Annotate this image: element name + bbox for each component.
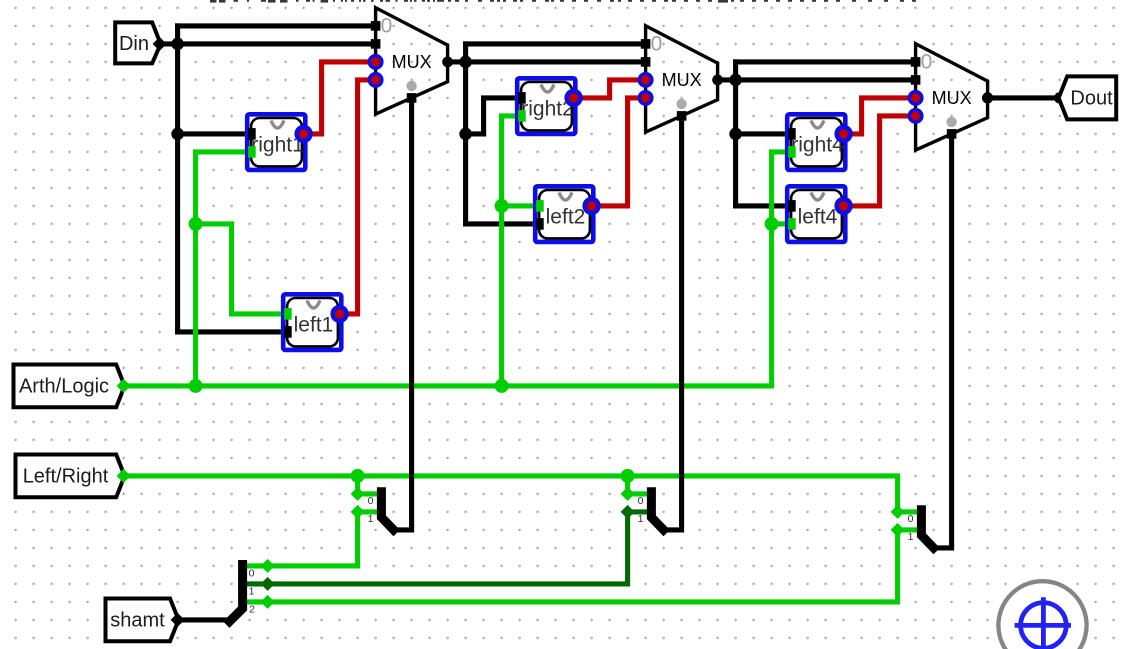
wire shamt to splitter xyxy=(178,617,232,622)
node Arth left1 junction xyxy=(189,217,203,231)
splitter S1 for MUX1 select xyxy=(358,491,382,496)
svg-text:left2: left2 xyxy=(546,206,586,229)
subcircuit left4 xyxy=(785,184,848,244)
wire stage3 top bus to MUX3 in0 xyxy=(736,59,916,64)
wire stage3 vertical bus xyxy=(733,62,738,206)
splitter S2 end1 marker xyxy=(621,505,635,519)
input pin shamt xyxy=(106,599,179,642)
wire shamt bit0 to splitter1 end1 xyxy=(244,512,358,566)
svg-text:left4: left4 xyxy=(798,206,838,229)
wire MUX3 select vertical xyxy=(934,134,952,548)
wire stage2 bus jog to right2 in xyxy=(466,98,523,134)
subcircuit right2 xyxy=(515,76,578,136)
wire Left/Right to splitter1 end0 xyxy=(355,476,360,494)
svg-text:2: 2 xyxy=(249,603,255,615)
subcircuit left2 xyxy=(533,184,596,244)
splitter shamt end2 marker xyxy=(261,595,275,609)
node C junction xyxy=(729,74,742,87)
wire Arth branch to left1 in1 xyxy=(196,224,290,314)
svg-text:shamt: shamt xyxy=(110,610,165,632)
svg-text:0: 0 xyxy=(638,495,644,507)
wire stage1 bus to left1 in xyxy=(178,329,290,334)
wire stage2 vertical bus xyxy=(463,44,468,224)
wire right1 out to MUX1 in2 (red) xyxy=(304,62,376,134)
splitter S3 for MUX3 select xyxy=(898,509,922,514)
svg-text:left1: left1 xyxy=(294,314,334,337)
op-mux U3 (MUX stage 3) xyxy=(916,44,988,150)
svg-text:1: 1 xyxy=(249,585,255,597)
output pin Dout xyxy=(1059,76,1117,119)
node B junction xyxy=(459,56,472,69)
wire Arth to right1 in2 xyxy=(196,152,254,386)
input pin Left/Right xyxy=(16,455,125,498)
wire Arth branch to left2 in1 xyxy=(502,203,541,208)
wire left2 out to MUX2 in3 (red) xyxy=(592,98,646,206)
splitter shamt end1 marker xyxy=(261,577,275,591)
wire stage1 bus to MUX1 in1 xyxy=(178,41,376,46)
svg-text:1: 1 xyxy=(638,513,644,525)
svg-text:Din: Din xyxy=(119,33,149,55)
splitter S1 end0 marker xyxy=(351,487,365,501)
subcircuit left1 xyxy=(281,292,344,352)
wire MUX1 select vertical xyxy=(394,98,412,530)
op-mux U2 (MUX stage 2) xyxy=(646,26,718,132)
wire MUX3 out to Dout xyxy=(988,95,1060,100)
node stage1 right1 junction xyxy=(171,128,184,141)
wire stage2 top bus to MUX2 in0 xyxy=(466,41,646,46)
wire MUX2 select vertical xyxy=(664,116,682,530)
op-mux U1 (MUX stage 1) xyxy=(376,8,448,114)
canvas origin crosshair xyxy=(998,581,1086,649)
pin Arth/Logic connection marker xyxy=(117,379,131,393)
svg-text:0: 0 xyxy=(651,33,663,56)
svg-text:Left/Right: Left/Right xyxy=(23,466,109,488)
svg-text:0: 0 xyxy=(368,495,374,507)
subcircuit right4 xyxy=(785,112,848,172)
splitter S3 end0 marker xyxy=(891,505,905,519)
node MUX3 output xyxy=(982,92,993,103)
wire Arth branch to left4 in2 xyxy=(772,221,794,226)
wire right4 out to MUX3 in2 (red) xyxy=(844,98,916,134)
wire shamt bit1 to splitter2 end1 (dark green) xyxy=(244,512,628,584)
splitter shamt end0 marker xyxy=(261,559,275,573)
node Left/Right splitter1 junction xyxy=(351,469,365,483)
subcircuit right1 xyxy=(245,112,308,172)
node Dout input xyxy=(1054,92,1065,103)
svg-text:MUX: MUX xyxy=(932,88,972,108)
wire stage3 bus to MUX3 in1 xyxy=(736,77,916,82)
wire stage2 bus to MUX2 in1 xyxy=(466,59,646,64)
wire left4 out to MUX3 in3 (red) xyxy=(844,116,916,206)
node stage2 right2 junction xyxy=(459,128,472,141)
node Arth stage1 junction xyxy=(189,379,203,393)
svg-text:1: 1 xyxy=(368,513,374,525)
wire stage3 bus to right4 in xyxy=(736,131,794,136)
top cut-off text row xyxy=(210,0,217,3)
wire left1 out to MUX1 in3 (red) xyxy=(340,80,376,314)
wire shamt bit2 to splitter3 end1 xyxy=(244,530,898,602)
svg-text:Dout: Dout xyxy=(1070,87,1113,109)
wire MUX2 out to node C xyxy=(718,77,736,82)
node A junction xyxy=(171,38,184,51)
wire stage1 vertical bus xyxy=(175,26,180,332)
wire stage2 bus to left2 in xyxy=(466,221,541,226)
node Left/Right splitter2 junction xyxy=(621,469,635,483)
pin Left/Right connection marker xyxy=(117,469,131,483)
wire MUX1 out to node B xyxy=(448,59,466,64)
wire stage1 bus to right1 in xyxy=(178,131,254,136)
svg-text:0: 0 xyxy=(921,51,933,74)
node Arth stage2 junction xyxy=(495,379,509,393)
wire Left/Right to splitter2 end0 xyxy=(625,476,630,494)
wire Arth/Logic rail xyxy=(124,152,794,386)
splitter shamt 3-bit fanout xyxy=(230,565,243,622)
node Arth left2 junction xyxy=(495,199,509,213)
input pin Din xyxy=(115,22,160,63)
wire stage1 top bus to MUX1 in0 xyxy=(178,23,376,28)
svg-text:MUX: MUX xyxy=(392,52,432,72)
wire Arth to right2 in2 xyxy=(502,116,523,386)
splitter S3 end1 marker xyxy=(891,523,905,537)
wire right2 out to MUX2 in2 (red) xyxy=(574,80,646,98)
svg-text:1: 1 xyxy=(908,531,914,543)
svg-text:0: 0 xyxy=(249,567,255,579)
wire Din to node A xyxy=(160,41,178,46)
svg-text:0: 0 xyxy=(908,513,914,525)
wire Left/Right rail xyxy=(124,476,898,512)
node stage3 right4 junction xyxy=(729,128,742,141)
splitter S2 end0 marker xyxy=(621,487,635,501)
svg-text:0: 0 xyxy=(381,15,393,38)
pin shamt connection marker xyxy=(171,613,185,627)
svg-text:Arth/Logic: Arth/Logic xyxy=(19,376,109,398)
input pin Arth/Logic xyxy=(14,365,125,408)
pin Din connection marker xyxy=(153,37,167,51)
node Arth left4 junction xyxy=(765,217,779,231)
svg-text:MUX: MUX xyxy=(662,70,702,90)
splitter S2 for MUX2 select xyxy=(628,491,652,496)
wire stage3 bus to left4 in xyxy=(736,203,794,208)
splitter S1 end1 marker xyxy=(351,505,365,519)
